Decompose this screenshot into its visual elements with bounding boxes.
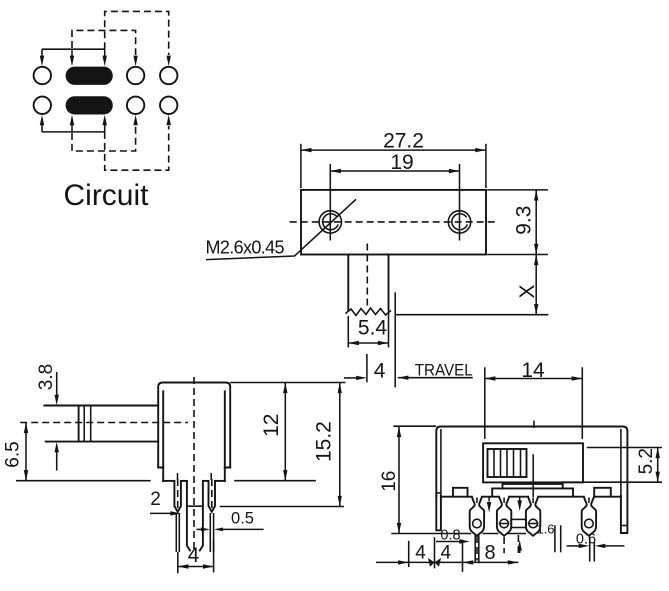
dimension 9.3 — [535, 190, 537, 255]
dimension 16 — [398, 427, 400, 534]
arrow TRAVEL pointing left — [398, 377, 473, 379]
hole right outer — [448, 211, 470, 233]
node pin3 row1 (circle) — [127, 67, 144, 84]
dimension 5.2 — [657, 448, 659, 483]
left bump — [453, 488, 468, 497]
lever cap line 1 — [83, 406, 85, 442]
svg-text:X: X — [516, 284, 539, 298]
extension line bottom right (15.2 ref) — [220, 506, 344, 508]
extension line 27.2 right — [485, 144, 487, 188]
pin left thin tail — [176, 513, 179, 552]
extension line 16 bottom (long) — [391, 533, 526, 535]
arrow to pin4 row2 — [167, 115, 171, 126]
dimension 6.5 — [25, 423, 27, 481]
wire solid row2 — [42, 131, 105, 133]
slider window — [483, 443, 583, 482]
hole left outer — [319, 211, 341, 233]
slider knob — [488, 449, 527, 477]
side body inner wall left — [162, 391, 164, 481]
node pin1 row2 (circle) — [34, 97, 51, 114]
svg-text:4: 4 — [441, 543, 452, 564]
dimension 4 (side) — [178, 566, 214, 568]
leader M2.6x0.45 — [206, 199, 356, 259]
extension line top right (12/15.2 ref) — [230, 382, 345, 384]
top view body rect — [301, 190, 486, 255]
svg-text:Circuit: Circuit — [63, 179, 149, 212]
extension line 16 top — [393, 425, 436, 427]
arrow to bar-left row1 — [71, 49, 73, 56]
dimension 5.4 — [348, 342, 388, 344]
contact guide line — [532, 454, 534, 497]
right bump — [594, 488, 611, 497]
hole left thread arc — [323, 214, 339, 230]
svg-text:15.2: 15.2 — [312, 421, 335, 462]
svg-text:8: 8 — [484, 542, 495, 564]
svg-text:M2.6x0.45: M2.6x0.45 — [206, 238, 285, 258]
chain extension line b — [434, 537, 436, 568]
terminal 1 tail — [475, 534, 479, 563]
dimension 15.2 — [339, 383, 341, 507]
svg-text:5.2: 5.2 — [636, 448, 657, 474]
terminal 1 hole — [473, 519, 482, 528]
terminal lug 4 — [582, 497, 596, 536]
side body step ticks — [158, 467, 230, 469]
terminal 4 hole — [585, 519, 594, 528]
svg-text:4: 4 — [415, 543, 426, 564]
shaft left line — [347, 255, 349, 311]
terminal 2 hole — [500, 519, 509, 528]
extension line 14 left — [484, 367, 486, 439]
dim-8 dashed extension — [517, 535, 519, 556]
dimension X — [535, 255, 537, 315]
svg-text:12: 12 — [260, 414, 283, 437]
svg-text:0.5: 0.5 — [231, 510, 254, 528]
hole right thread arc — [452, 214, 468, 230]
arrow to bar-right row1 — [104, 49, 106, 56]
dimension 19 — [330, 170, 459, 172]
svg-text:9.3: 9.3 — [513, 206, 536, 235]
terminal lug 2 — [497, 497, 511, 536]
extension line bottom left (6.5 ref) — [16, 480, 151, 482]
svg-text:4: 4 — [374, 360, 386, 383]
node pin4 row1 (circle) — [160, 67, 177, 84]
lever handle top line (with left extension) — [44, 405, 158, 407]
node pin1 row1 (circle) — [34, 67, 51, 84]
svg-text:5.4: 5.4 — [358, 317, 388, 340]
body bottom edge segments — [163, 480, 174, 482]
dimension 14 — [485, 378, 583, 380]
arrow to pin3 row1 — [133, 56, 137, 67]
platform step upper — [503, 484, 563, 489]
arrow to bar-left row2 — [71, 125, 73, 132]
node pin4 row2 (circle) — [160, 97, 177, 114]
svg-text:6.5: 6.5 — [2, 441, 23, 467]
extension line 9.3 bottom — [487, 254, 548, 256]
dashed wire bottom row2 — [105, 126, 169, 170]
lever handle bottom line (with left extension) — [46, 441, 159, 443]
shorting bar row2 (filled oval) — [66, 96, 113, 114]
chain extension line a — [408, 541, 410, 567]
pin root ticks — [178, 473, 212, 480]
center back pin — [187, 481, 203, 551]
chain dimension line 4-4-8 — [376, 561, 518, 563]
svg-text:1.6: 1.6 — [536, 522, 554, 537]
shaft left ext below break — [347, 316, 349, 348]
arrow to pin1 row1 — [41, 49, 43, 56]
chain extension line c — [462, 540, 464, 572]
pin right thin tail — [210, 513, 213, 552]
platform step lower — [492, 488, 573, 496]
arrow to pin3 row2 — [133, 115, 137, 126]
dimension 3.8 upper arrow — [56, 372, 58, 395]
terminal 4 tail — [590, 537, 595, 562]
shaft dashed centerline — [366, 244, 368, 309]
dashed centerline horizontal side view — [20, 422, 188, 424]
node pin3 row2 (circle) — [127, 97, 144, 114]
terminal lug 1 — [470, 497, 484, 536]
svg-text:16: 16 — [379, 471, 400, 492]
svg-text:4: 4 — [188, 544, 200, 567]
svg-text:2: 2 — [150, 489, 161, 510]
front pin right — [209, 481, 216, 512]
extension line 14 right — [581, 367, 583, 439]
arrow up 1.6 lower — [519, 550, 521, 553]
side body outline — [158, 383, 230, 468]
dashed wire lower row2 — [72, 126, 136, 151]
shorting bar row1 (filled oval) — [66, 67, 113, 85]
front body top edge — [436, 427, 627, 497]
front body left strip — [436, 496, 441, 530]
tray bottom edge segments — [441, 496, 621, 498]
front pin left dashed center — [177, 479, 179, 508]
hole slits t2 t3 — [499, 523, 539, 525]
arrow to bar-right row2 — [104, 125, 106, 132]
extension line 4-dim left (side) — [177, 552, 179, 573]
terminal lug 3 — [526, 497, 540, 536]
terminal 3 hole — [529, 519, 538, 528]
dimension 3.8 lower arrow — [56, 452, 58, 471]
connector bar t2-t3 — [511, 519, 526, 527]
arrow 4-dim outside left — [344, 377, 357, 379]
side body vertical dashed centerline — [193, 377, 195, 552]
neck center ticks — [477, 498, 589, 504]
dimension 27.2 — [301, 149, 486, 151]
knob ribs — [494, 449, 521, 477]
dashed centerline horizontal — [290, 221, 498, 223]
lever cap line 2 — [90, 406, 92, 442]
side body inner wall right — [224, 391, 226, 481]
svg-text:19: 19 — [390, 151, 413, 174]
extension line 4-dim left — [366, 354, 368, 382]
extension line X bottom (long) — [395, 314, 548, 316]
front pin left — [174, 481, 181, 512]
dashed wire upper row1 — [105, 11, 169, 55]
extension line mid right (12 ref) — [234, 480, 316, 482]
terminal 2 tail dashed — [503, 537, 505, 553]
arrow to pin1 row2 — [41, 125, 43, 132]
dimension 12 — [284, 383, 286, 481]
svg-text:3.8: 3.8 — [36, 364, 57, 390]
svg-text:14: 14 — [521, 359, 545, 382]
svg-text:27.2: 27.2 — [383, 130, 424, 153]
extension line 4-dim right (side) — [213, 541, 215, 573]
front pin right dashed center — [211, 479, 213, 508]
back row tail t3-t4 — [555, 525, 561, 552]
svg-text:TRAVEL: TRAVEL — [415, 362, 473, 380]
lever tip vertical — [78, 406, 80, 442]
extension line 27.2 left — [300, 144, 302, 188]
shaft right line — [388, 255, 390, 309]
extension line 19 right (through hole) — [459, 164, 461, 241]
front body right strip — [621, 496, 628, 533]
extension line 5.2 top — [587, 447, 662, 449]
extension line 9.3 top — [487, 189, 548, 191]
arrow down 1.6 upper — [519, 498, 521, 501]
top center tick — [533, 421, 535, 429]
dashed wire lower row1 — [72, 30, 136, 55]
center back pin ledge — [187, 505, 203, 507]
arrow down between t1 t2 — [488, 497, 490, 502]
break zigzag — [346, 308, 392, 316]
wire solid row1 — [42, 48, 105, 50]
extension line 19 left (through hole) — [329, 164, 331, 241]
extension line 5.2 bottom — [562, 481, 662, 483]
arrow to pin4 row1 — [167, 56, 171, 67]
travel position line — [394, 292, 396, 387]
